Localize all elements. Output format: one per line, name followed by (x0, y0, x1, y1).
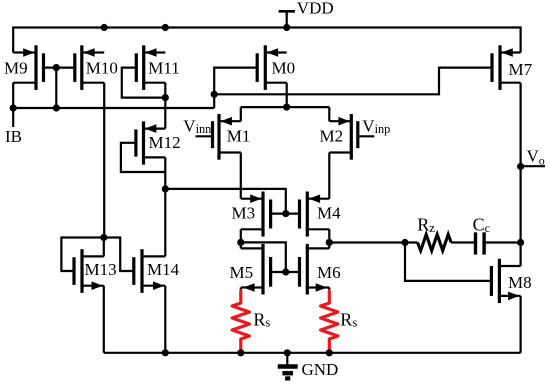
node M9 drain on IB rail (10, 104, 17, 111)
transistor M1 (213, 114, 241, 160)
svg-text:M12: M12 (149, 133, 181, 152)
label M8 (508, 273, 532, 292)
transistor M0 (257, 45, 287, 90)
wire cascode line M12/M14 to M3 gate node (165, 189, 285, 214)
svg-text:M9: M9 (4, 59, 28, 78)
node M13 drain / M10 drain (100, 234, 107, 241)
svg-text:Rs: Rs (253, 310, 270, 330)
svg-text:M5: M5 (230, 263, 254, 282)
label M7 (509, 60, 533, 79)
wire M12 source riser (164, 98, 166, 129)
transistor M5 (241, 244, 271, 295)
wire M2 source riser (328, 107, 330, 121)
power VDD terminal (279, 11, 295, 27)
transistor M2 (329, 114, 358, 160)
svg-text:M11: M11 (148, 59, 180, 78)
wire M14 drain riser (164, 189, 166, 257)
node gate-IB junction (53, 104, 60, 111)
label Cc (473, 215, 490, 235)
wire M0 gate to bias node (214, 68, 257, 95)
wire M8 gate from Rz tap (405, 243, 491, 281)
wire M5-M6 gate link (271, 271, 300, 273)
label M6 (317, 263, 341, 282)
wire M13-M14 gate line (104, 238, 134, 272)
label M4 (317, 203, 341, 222)
svg-text:M3: M3 (232, 203, 256, 222)
transistor M10 (75, 45, 104, 90)
svg-text:Rz: Rz (417, 214, 435, 235)
transistor M13 (74, 249, 104, 293)
wire M9-M10 gate link (44, 66, 75, 68)
transistor M14 (134, 249, 166, 293)
wire M5/M6 gate tap (241, 242, 286, 272)
label M3 (232, 203, 256, 222)
svg-text:M13: M13 (85, 260, 117, 279)
capacitor Cc (476, 232, 485, 254)
wire M1 source riser (240, 107, 242, 121)
wire IB rail (13, 107, 214, 109)
node M12 drain / cascode (162, 185, 169, 192)
node M14 source on rail (162, 349, 169, 356)
wire M10 drain drop (103, 83, 105, 238)
label M12 (149, 133, 181, 152)
wire VDD top rail (13, 28, 520, 53)
svg-text:GND: GND (302, 360, 339, 379)
wire M0 drain drop (286, 83, 288, 107)
label Rs right (340, 310, 357, 330)
node M9/M10 gate (53, 64, 60, 71)
node GND tap (284, 349, 291, 356)
wire M13 source drop (103, 286, 105, 353)
wire M6 node to Rz (329, 241, 417, 243)
node Rs right on rail (326, 349, 333, 356)
wire M4 source drop (328, 229, 330, 242)
svg-text:VDD: VDD (297, 0, 334, 18)
node Rz / M8 gate tap (401, 239, 408, 246)
svg-text:M0: M0 (272, 59, 296, 78)
node M0 drain / tail (283, 104, 290, 111)
label M2 (320, 126, 344, 145)
label M13 (85, 260, 117, 279)
wire M7 drain to M8 drain (519, 83, 521, 266)
resistor Rz (418, 234, 452, 250)
resistor Rs right (321, 291, 338, 353)
transistor M9 (13, 45, 43, 90)
wire M2 drain drop (328, 153, 330, 199)
label IB (5, 127, 22, 146)
wire bias riser (213, 94, 215, 108)
label GND (302, 360, 339, 379)
svg-text:IB: IB (5, 127, 22, 146)
transistor M6 (300, 244, 330, 295)
wire M11 gate-drain loop (122, 68, 166, 98)
wire M3 source drop (240, 229, 242, 242)
wire M14 source drop (164, 286, 166, 353)
wire M3-M4 gate link (271, 213, 300, 215)
wire M9 drain to IB rail (12, 83, 14, 108)
svg-text:Vo: Vo (527, 146, 545, 167)
svg-text:M1: M1 (227, 126, 251, 145)
wire M12 drain drop (164, 157, 166, 189)
wire M11 drain drop (164, 83, 166, 98)
wire M1 gate stub Vinn (196, 135, 213, 137)
node M3 source / M5 drain (237, 239, 244, 246)
label Rs left (253, 310, 270, 330)
ground symbol (278, 353, 298, 379)
svg-text:M7: M7 (509, 60, 533, 79)
resistor Rs left (232, 291, 249, 353)
wire M6 drain riser (328, 242, 330, 248)
transistor M12 (136, 121, 165, 164)
label M1 (227, 126, 251, 145)
label M14 (147, 260, 180, 279)
wire gate node to IB rail (55, 68, 57, 108)
wire M1 drain drop (240, 153, 242, 199)
label M5 (230, 263, 254, 282)
transistor M11 (136, 45, 165, 90)
label M10 (86, 59, 118, 78)
wire Rz to Cc (451, 241, 475, 243)
wire M13 gate loop (61, 238, 103, 272)
node VDD entry (283, 24, 290, 31)
node bias junction (211, 91, 218, 98)
wire M8 source drop (519, 296, 521, 353)
node M11 drain / M12 source (162, 94, 169, 101)
svg-text:M8: M8 (508, 273, 532, 292)
svg-text:M14: M14 (147, 260, 180, 279)
wire Vo stub (521, 165, 545, 167)
node Rs left on rail (237, 349, 244, 356)
node M4 source / M6 drain (326, 239, 333, 246)
node Vo (517, 163, 524, 170)
wire M7 gate bias line (214, 68, 492, 95)
transistor M4 (300, 192, 330, 237)
label Vinp (362, 117, 390, 137)
svg-text:M2: M2 (320, 126, 344, 145)
label Vinn (183, 117, 211, 136)
node M5/M6 gate (282, 268, 289, 275)
label M9 (4, 59, 28, 78)
label M11 (148, 59, 180, 78)
svg-text:M10: M10 (86, 59, 118, 78)
node M11 source on VDD rail (162, 24, 169, 31)
label Rz (417, 214, 435, 235)
label Vo (527, 146, 545, 167)
wire tail line M1-M2 sources (241, 106, 329, 108)
transistor M7 (492, 45, 521, 90)
transistor M3 (241, 192, 271, 237)
svg-text:M4: M4 (317, 203, 341, 222)
transistor M8 (491, 259, 520, 303)
node M10 source on VDD rail (101, 24, 108, 31)
wire M12 gate-drain loop (121, 143, 165, 172)
wire M13 drain riser (103, 238, 105, 257)
label VDD (297, 0, 334, 18)
wire M6 source corner (328, 288, 330, 293)
wire M5 source corner (240, 288, 242, 293)
label M0 (272, 59, 296, 78)
wire M5 drain riser (240, 242, 242, 248)
wire M2 gate stub Vinp (358, 135, 375, 137)
svg-text:M6: M6 (317, 263, 341, 282)
node M3/M4 gate (282, 210, 289, 217)
wire IB stub (12, 108, 14, 127)
svg-text:Vinn: Vinn (183, 117, 211, 136)
svg-text:Vinp: Vinp (362, 117, 390, 137)
svg-text:Rs: Rs (340, 310, 357, 330)
node Cc / output (517, 239, 524, 246)
wire GND bottom rail (104, 352, 521, 354)
wire Cc to output column (484, 241, 520, 243)
svg-text:Cc: Cc (473, 215, 490, 235)
